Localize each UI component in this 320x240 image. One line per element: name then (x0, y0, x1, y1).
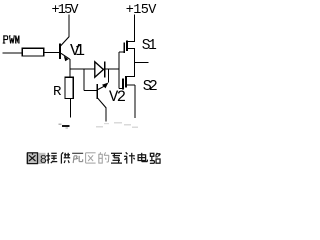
svg-text:V1: V1 (70, 41, 85, 60)
svg-text:V2: V2 (109, 88, 126, 106)
svg-text:+15V: +15V (52, 3, 80, 18)
svg-text:8: 8 (40, 153, 47, 165)
svg-text:+15V: +15V (126, 3, 157, 18)
svg-text:R: R (53, 84, 62, 100)
svg-text:S1: S1 (142, 38, 157, 54)
svg-text:S2: S2 (143, 78, 158, 95)
